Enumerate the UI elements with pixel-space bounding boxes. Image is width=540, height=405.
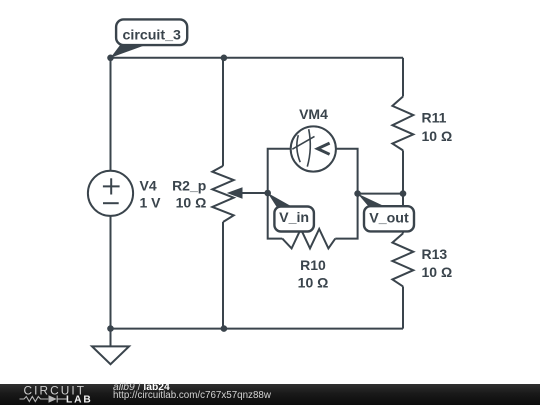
wire right rail top (to R11) [402, 58, 404, 97]
wire R11 bottom to V_out node [402, 150, 404, 193]
junction node R2_p bottom [221, 325, 228, 332]
ground symbol [92, 329, 129, 365]
svg-text:10 Ω: 10 Ω [422, 128, 453, 144]
wire bottom rail [111, 328, 404, 330]
svg-text:R13: R13 [422, 246, 448, 262]
junction node right rail [400, 190, 407, 197]
svg-text:VM4: VM4 [299, 106, 328, 122]
junction node ground [107, 325, 114, 332]
svg-text:V_in: V_in [279, 210, 309, 226]
svg-text:LAB: LAB [66, 395, 93, 405]
flag V_in box [274, 207, 314, 232]
svg-text:10 Ω: 10 Ω [298, 274, 329, 290]
svg-text:R2_p: R2_p [172, 178, 206, 194]
V4 minus sign [103, 202, 119, 204]
wire R2_p top [222, 58, 224, 166]
junction node V_out [354, 190, 361, 197]
wire left rail upper [110, 58, 112, 171]
svg-text:10 Ω: 10 Ω [176, 195, 207, 211]
wire R10 right to V_out node [335, 194, 357, 239]
svg-text:circuit_3: circuit_3 [123, 27, 181, 43]
flag V_out tail [358, 194, 386, 207]
junction node top-left [107, 55, 114, 62]
flag V_in tail [268, 193, 294, 208]
footer bar [0, 384, 540, 405]
resistor R13 zigzag [392, 233, 413, 286]
svg-text:V_out: V_out [369, 210, 409, 226]
svg-text:V4: V4 [140, 178, 157, 194]
wire VM4 left [268, 149, 291, 193]
potentiometer R2_p zigzag [212, 166, 233, 222]
junction node R2_p top [221, 55, 228, 62]
wire V_out node to right rail [358, 193, 403, 195]
voltage source V4 circle [88, 171, 133, 216]
flag V_out box [364, 206, 414, 231]
footer credit line [113, 383, 533, 405]
junction node V_in [264, 190, 271, 197]
svg-text:1 V: 1 V [140, 195, 162, 211]
V4 plus sign [103, 178, 120, 194]
svg-text:R10: R10 [300, 257, 326, 273]
footer CircuitLab logo [0, 384, 100, 405]
wire top rail [111, 57, 404, 59]
resistor R11 zigzag [392, 97, 413, 151]
svg-text:10 Ω: 10 Ω [422, 264, 453, 280]
wire VM4 right [336, 149, 358, 194]
wire V_out node to R13 top [402, 194, 404, 234]
wire V_in node down to R10 [268, 193, 283, 239]
wire left rail lower [110, 216, 112, 329]
wire R2_p bottom [222, 222, 224, 329]
svg-text:R11: R11 [422, 110, 447, 126]
voltmeter VM4 circle [291, 126, 336, 171]
resistor R10 zigzag [282, 229, 335, 248]
potentiometer R2_p wiper arrow [227, 187, 243, 199]
flag circuit_3 box [116, 19, 187, 45]
wire R13 bottom to bottom rail [402, 286, 404, 328]
wire wiper to V_in node [241, 192, 268, 194]
flag circuit_3 tail [111, 45, 148, 58]
voltmeter VM4 gauge detail [292, 129, 329, 166]
